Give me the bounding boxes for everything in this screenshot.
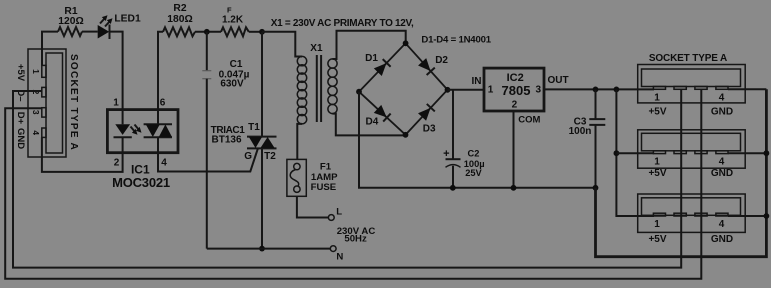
svg-text:+5V: +5V	[648, 106, 666, 117]
wire LED1 cathode down to IC1 pin 1	[110, 32, 123, 125]
svg-text:50Hz: 50Hz	[344, 234, 367, 245]
svg-text:3: 3	[31, 110, 41, 115]
wire bridge + output to IC2 IN	[448, 89, 485, 91]
svg-text:D+: D+	[15, 112, 26, 125]
second arrow	[135, 125, 140, 131]
wire IC2 COM down to GND line	[513, 111, 515, 188]
wire secondary top to bridge top	[333, 31, 406, 59]
thick GND return path to sockets	[596, 89, 767, 256]
svg-text:C2: C2	[468, 148, 480, 158]
wire IC1 pin4 to triac gate	[158, 148, 258, 171]
bridge corner junction dots	[403, 40, 409, 46]
junction dot +5V rail top	[614, 87, 620, 93]
transformer X1 secondary winding	[328, 59, 337, 114]
wire node B down to triac T1	[261, 32, 263, 137]
socket A2 (middle right)	[638, 130, 746, 179]
svg-text:D3: D3	[423, 124, 436, 135]
svg-text:4: 4	[161, 158, 167, 169]
svg-text:630V: 630V	[220, 78, 244, 89]
wire bridge - output down and GND line to the right	[359, 92, 596, 188]
pin 2 (left socket)	[42, 87, 46, 97]
svg-text:2: 2	[114, 158, 120, 169]
IC1 pin 6 wire stub inside	[157, 110, 159, 125]
junction dot C3 top	[593, 87, 599, 93]
svg-text:SOCKET TYPE A: SOCKET TYPE A	[68, 54, 79, 151]
junction dot C2 on GND line	[450, 185, 456, 191]
IC2 7805 box	[484, 68, 544, 111]
junction dot GND corner at C3	[593, 185, 599, 191]
wire R2 to node A	[195, 31, 221, 33]
svg-text:1: 1	[654, 157, 660, 168]
capacitor C2 plates	[446, 158, 461, 160]
svg-text:+: +	[443, 148, 449, 160]
diode D2	[418, 58, 435, 75]
wire N line	[207, 248, 331, 250]
IC1 internal LED	[115, 124, 130, 135]
wire R3 to node B	[249, 31, 262, 33]
svg-text:+5V: +5V	[15, 64, 26, 82]
wire primary bottom to fuse	[297, 124, 302, 159]
svg-text:LED1: LED1	[114, 14, 141, 25]
terminal L circle	[328, 215, 334, 221]
svg-text:L: L	[336, 207, 342, 218]
svg-text:25V: 25V	[465, 168, 482, 178]
svg-text:1: 1	[488, 85, 494, 96]
+5V rail down the sockets	[616, 89, 654, 216]
bridge rectifier diamond	[359, 43, 448, 135]
svg-text:D4: D4	[366, 117, 379, 128]
wire IC1 pin6 up to R2	[158, 32, 163, 110]
svg-text:GND: GND	[15, 128, 26, 149]
wire R1 to LED1	[82, 31, 98, 33]
svg-text:R2: R2	[173, 3, 186, 14]
svg-text:1: 1	[113, 98, 119, 109]
socket A3 (bottom right)	[638, 194, 746, 245]
LED1	[98, 25, 110, 39]
svg-text:4: 4	[719, 219, 725, 230]
wire D+ from pin 3 to bottom bus to right sockets pin 3	[5, 89, 701, 278]
socket A1 (top right)	[638, 65, 746, 118]
svg-text:6: 6	[160, 98, 166, 109]
svg-text:+5V: +5V	[648, 168, 666, 179]
wire fuse to L terminal	[297, 196, 329, 217]
svg-text:4: 4	[719, 92, 725, 103]
junction dot GND rail socket 3	[764, 213, 770, 219]
svg-text:4: 4	[31, 130, 41, 135]
svg-text:IN: IN	[472, 76, 482, 87]
svg-text:120Ω: 120Ω	[58, 16, 83, 27]
svg-text:X1 = 230V AC PRIMARY TO 12V,: X1 = 230V AC PRIMARY TO 12V,	[271, 18, 414, 29]
socket CON1 inner body	[46, 53, 63, 153]
wire GND pin4 to IC1 pin 2	[42, 137, 123, 172]
capacitor C3 bottom lead	[595, 125, 597, 188]
terminal N circle	[330, 246, 336, 252]
pin 1 (left socket)	[42, 65, 46, 77]
svg-text:X1: X1	[310, 43, 323, 54]
svg-text:GND: GND	[711, 106, 733, 117]
capacitor C2 negative lead	[452, 166, 454, 188]
svg-text:4: 4	[719, 157, 725, 168]
svg-text:1.2K: 1.2K	[222, 14, 244, 25]
svg-text:100n: 100n	[569, 126, 592, 137]
svg-text:SOCKET TYPE A: SOCKET TYPE A	[649, 53, 727, 64]
transformer X1 primary winding	[297, 56, 306, 124]
diode D3	[418, 104, 435, 121]
wire node B to primary top	[262, 32, 302, 57]
svg-text:D2: D2	[435, 55, 448, 66]
junction dot GND rail socket 2	[764, 150, 770, 156]
IC1 pin 4 wire stub inside	[157, 137, 159, 153]
IC1 pin 1 wire stub inside	[122, 137, 124, 153]
svg-text:7805: 7805	[502, 83, 531, 98]
junction dot COM on GND line	[511, 185, 517, 191]
wire GND feed socket 3	[728, 215, 766, 217]
wire IC2 OUT rail to socket 1 pin 1	[544, 88, 654, 90]
svg-text:T2: T2	[264, 151, 276, 162]
svg-text:BT136: BT136	[211, 135, 241, 146]
diode D4	[374, 105, 391, 122]
junction dot +5V rail socket 2 feed	[614, 150, 620, 156]
wire GND feed socket 1	[728, 88, 766, 90]
svg-text:GND: GND	[711, 168, 733, 179]
svg-text:OUT: OUT	[547, 75, 568, 86]
svg-text:G: G	[244, 151, 252, 162]
resistor R2	[163, 27, 195, 36]
capacitor C3 top lead	[595, 89, 597, 119]
node B junction dot	[259, 29, 265, 35]
resistor R1	[58, 27, 82, 36]
wire D- from pin 2 to bottom bus to right sockets pin 2	[13, 89, 681, 267]
svg-text:D1-D4 = 1N4001: D1-D4 = 1N4001	[421, 34, 491, 45]
svg-text:N: N	[336, 252, 343, 263]
node A junction dot	[204, 29, 210, 35]
diode D1	[374, 59, 391, 76]
IC1 internal triac	[144, 123, 172, 125]
pin 3 (left socket)	[42, 108, 46, 117]
svg-text:180Ω: 180Ω	[167, 14, 192, 25]
svg-text:2: 2	[512, 99, 518, 110]
svg-text:COM: COM	[518, 114, 540, 125]
capacitor C1 lead down to N line	[206, 79, 208, 249]
socket CON1 outer body	[28, 49, 66, 157]
svg-text:F1: F1	[320, 162, 332, 173]
wire triac T2 down to N line	[261, 148, 263, 248]
wire +5V pin1 up to R1	[42, 32, 58, 66]
svg-text:D1: D1	[365, 53, 378, 64]
svg-text:GND: GND	[711, 234, 733, 245]
svg-text:F: F	[227, 5, 232, 14]
capacitor C1 lead from node A	[206, 32, 208, 71]
svg-text:+5V: +5V	[648, 234, 666, 245]
svg-text:1: 1	[31, 69, 41, 74]
LED1 light arrows	[100, 18, 106, 24]
junction dot T2 on N line	[259, 246, 265, 252]
svg-text:1: 1	[654, 92, 660, 103]
resistor R3	[221, 27, 249, 36]
capacitor C2 positive lead	[452, 90, 454, 159]
IC1 opto-triac box	[107, 110, 178, 153]
svg-text:MOC3021: MOC3021	[112, 175, 170, 190]
fuse F1	[287, 159, 306, 196]
wire +5V feed socket 2	[616, 152, 654, 154]
transformer X1 core	[316, 55, 318, 122]
svg-text:T1: T1	[248, 122, 260, 133]
wire secondary bottom to bridge bottom	[333, 114, 406, 136]
capacitor C3 plates	[589, 118, 605, 120]
triac TRIAC1 symbol	[247, 136, 277, 138]
capacitor C1 plates	[202, 70, 211, 72]
svg-text:FUSE: FUSE	[311, 182, 337, 193]
svg-text:1: 1	[654, 219, 660, 230]
IC1 internal LED arrows	[131, 127, 136, 133]
wire GND feed socket 2	[728, 152, 766, 154]
pin 4 (left socket)	[42, 128, 46, 137]
svg-text:3: 3	[536, 85, 542, 96]
